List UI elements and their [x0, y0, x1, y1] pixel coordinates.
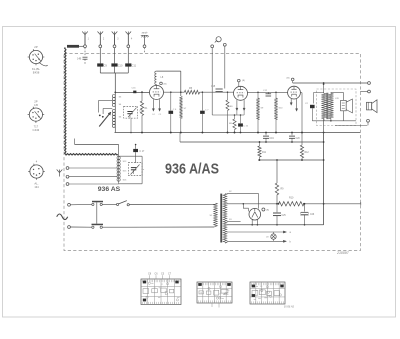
svg-text:C25: C25	[282, 215, 287, 217]
svg-text:S3: S3	[229, 219, 232, 221]
pentode V2	[234, 86, 248, 100]
coupling capacitor C15	[211, 86, 223, 92]
shielded down-lead cable (horizontal)	[65, 154, 118, 155]
HT wire right	[304, 202, 361, 205]
svg-text:S15: S15	[123, 171, 128, 173]
AVC bus	[180, 133, 324, 143]
pick-up terminals	[211, 43, 226, 47]
svg-text:B 936 AS: B 936 AS	[284, 305, 294, 308]
waveband tap upper	[99, 100, 113, 116]
speaker driver unit	[335, 98, 352, 113]
waveband switch arrow	[99, 112, 111, 126]
svg-text:R11: R11	[262, 152, 267, 154]
secondary tap rectifier output	[227, 203, 277, 205]
svg-text:C 6: C 6	[173, 109, 177, 111]
svg-text:(B): (B)	[266, 210, 269, 212]
trimmer capacitor C1 under A1	[77, 48, 88, 64]
anode coil S5	[155, 71, 164, 85]
V3 grid cap wire	[293, 81, 368, 84]
svg-text:C 15: C 15	[243, 125, 248, 127]
svg-text:S3: S3	[119, 97, 122, 99]
V2 legs	[236, 100, 245, 111]
rectifier tube V4	[249, 208, 261, 224]
wire R5 to V2	[200, 91, 234, 93]
svg-text:L8: L8	[161, 76, 164, 79]
speaker terminals	[356, 82, 370, 126]
svg-text:E438: E438	[33, 71, 40, 75]
chassis layout box 3	[250, 282, 294, 308]
936AS shield box	[119, 156, 143, 184]
screen capacitor C19	[263, 132, 274, 142]
svg-text:aarde: aarde	[142, 33, 149, 35]
secondary tap 4v	[227, 219, 241, 221]
svg-text:S13: S13	[123, 161, 128, 163]
V4 top cap	[262, 208, 269, 212]
svg-text:4: 4	[36, 160, 38, 164]
output transformer top wires	[323, 83, 344, 100]
svg-text:(B): (B)	[164, 84, 167, 86]
svg-text:R5: R5	[189, 87, 193, 90]
svg-text:C4: C4	[152, 114, 156, 116]
cathode return wire	[212, 111, 244, 116]
936AS coil loops	[117, 156, 127, 184]
svg-text:3: 3	[117, 38, 119, 41]
bypass capacitor C7	[200, 92, 209, 133]
HT bus	[258, 159, 324, 161]
AC mains symbol	[57, 214, 68, 220]
power transformer core	[220, 194, 222, 243]
svg-text:S7: S7	[184, 108, 187, 110]
primary left wire	[314, 92, 324, 103]
grid coupling capacitor C16	[115, 87, 149, 93]
svg-text:C 7: C 7	[205, 110, 209, 112]
chassis bus	[115, 132, 361, 134]
svg-text:AL.: AL.	[34, 181, 38, 185]
svg-text:C 17: C 17	[139, 151, 145, 153]
svg-text:a: a	[143, 169, 145, 171]
power transformer secondary	[223, 194, 227, 244]
pick-up lead right	[224, 46, 226, 88]
svg-text:2P: 2P	[34, 100, 38, 104]
output tube V3	[288, 86, 301, 99]
shielded down-lead cable (vertical)	[65, 48, 66, 155]
svg-text:L28: L28	[335, 98, 339, 100]
svg-text:C6: C6	[154, 272, 158, 275]
svg-text:C10: C10	[118, 63, 123, 67]
loudspeaker	[367, 100, 378, 113]
svg-text:936 AS: 936 AS	[98, 186, 121, 193]
chassis layout box 2	[197, 282, 232, 308]
trimmer box C2	[124, 106, 143, 118]
aerial terminals	[66, 167, 69, 186]
svg-text:210097: 210097	[336, 251, 350, 255]
secondary tap lamp b	[220, 239, 283, 241]
tube socket diagram AL (bottom left)	[28, 160, 45, 189]
voltage selector	[70, 201, 103, 228]
decoupling resistor R12	[300, 145, 309, 161]
dashed schematic border box	[64, 54, 361, 251]
svg-text:C2: C2	[305, 103, 309, 105]
dashed loudspeaker sub-box	[317, 89, 357, 126]
speaker field wire	[324, 125, 368, 127]
triode V1	[150, 85, 164, 99]
trim capacitor C12	[263, 90, 271, 98]
secondary tap lamp a	[227, 231, 283, 233]
screen capacitor C20	[289, 132, 300, 142]
V3 anode wire	[300, 93, 303, 145]
svg-text:2P: 2P	[34, 45, 38, 49]
svg-text:134: 134	[34, 185, 39, 189]
lamp arrow b	[283, 240, 291, 243]
resistor R5	[184, 87, 199, 94]
trimmer box feed	[130, 118, 132, 133]
dial lamp	[266, 232, 276, 241]
HT down wire	[323, 119, 325, 225]
svg-text:R9: R9	[281, 189, 285, 191]
tone capacitor C21	[305, 103, 315, 121]
svg-text:S9: S9	[261, 108, 264, 110]
V1 cathode legs	[152, 99, 162, 116]
chassis layout box 1	[141, 279, 181, 305]
svg-text:b: b	[290, 240, 292, 243]
svg-text:936 A/AS: 936 A/AS	[165, 162, 219, 178]
svg-text:a: a	[290, 231, 292, 234]
coil S10	[274, 92, 283, 133]
box1 capacitor labels	[148, 272, 172, 279]
coil S9	[256, 92, 264, 133]
power transformer primary S1	[210, 203, 218, 227]
series capacitor C17	[133, 144, 145, 163]
drawing number	[336, 251, 350, 255]
wire V2 anode	[248, 92, 288, 94]
lamp arrow a	[283, 231, 291, 234]
svg-text:C8: C8	[148, 272, 152, 275]
svg-text:C20: C20	[296, 138, 301, 140]
aerial terminal wires	[69, 168, 119, 184]
mains bottom wire	[102, 226, 214, 228]
V2 top cap	[238, 79, 246, 86]
anode wire	[164, 91, 185, 93]
svg-text:S4: S4	[119, 104, 122, 106]
svg-text:C5: C5	[159, 114, 163, 116]
antenna terminals	[84, 34, 146, 48]
choke S7	[180, 97, 187, 134]
HT return bus	[227, 224, 324, 226]
bypass capacitor C6	[169, 92, 177, 133]
svg-text:R12: R12	[305, 152, 310, 154]
V1 top cap	[160, 82, 167, 86]
filter capacitor C25	[273, 203, 286, 225]
svg-text:S6: S6	[119, 117, 122, 119]
secondary tap anode	[227, 191, 259, 208]
title 936 A/AS	[165, 162, 219, 178]
svg-text:(B): (B)	[242, 80, 245, 82]
svg-text:4: 4	[131, 38, 133, 41]
svg-text:C7: C7	[168, 272, 172, 275]
filter capacitor C26	[301, 203, 315, 225]
collector wire	[100, 73, 128, 92]
svg-text:S10: S10	[279, 108, 284, 110]
svg-text:R1: R1	[145, 108, 149, 110]
gramophone pick-up symbol	[215, 37, 221, 43]
aerial input symbol	[57, 170, 63, 177]
output transformer windings	[321, 93, 333, 119]
waveband tap lower	[102, 109, 112, 118]
svg-text:R6: R6	[230, 106, 234, 108]
capacitors C9 C10 C11	[97, 48, 136, 73]
svg-text:C9: C9	[104, 63, 108, 67]
smoothing resistor R10	[278, 197, 305, 207]
bias capacitor C11	[238, 115, 249, 133]
svg-text:C11: C11	[132, 63, 137, 67]
grid leak R6	[226, 92, 233, 133]
ground terminal stub	[144, 48, 146, 54]
tuning coil loops	[112, 92, 122, 133]
svg-text:R10: R10	[289, 197, 294, 200]
svg-text:2: 2	[103, 38, 105, 41]
decoupling resistor R11	[258, 141, 267, 161]
svg-text:14B: 14B	[77, 58, 82, 61]
svg-text:(B): (B)	[287, 78, 290, 80]
V3 top cap	[287, 78, 295, 81]
svg-text:S2: S2	[229, 191, 232, 193]
svg-text:C16: C16	[132, 87, 137, 89]
filament step wire	[243, 203, 249, 211]
svg-text:C15: C15	[211, 86, 216, 88]
label 936 AS	[98, 186, 121, 193]
V3 legs	[290, 99, 298, 112]
mains switch	[102, 201, 214, 206]
wire S5 to HT vertical	[157, 71, 181, 96]
tube socket diagram E438 (top left)	[28, 45, 48, 74]
svg-text:C26: C26	[310, 214, 315, 216]
pick-up lead left	[211, 48, 213, 115]
svg-text:R8: R8	[229, 123, 233, 125]
mains terminals	[68, 203, 71, 228]
output transformer bottom wires	[312, 111, 356, 122]
top feed wire	[75, 139, 119, 157]
trimmer box C18	[128, 163, 145, 176]
aerial plug	[67, 45, 84, 48]
svg-text:C12: C12	[263, 90, 268, 92]
svg-text:C5: C5	[161, 272, 165, 275]
svg-text:S16: S16	[123, 180, 128, 182]
antenna symbols A1-A4	[82, 32, 133, 45]
tube socket diagram C443 (middle left)	[28, 100, 45, 133]
svg-text:1: 1	[88, 38, 90, 41]
svg-text:S1: S1	[210, 215, 213, 217]
grid resistor R1	[140, 91, 148, 133]
bias resistor R8	[229, 115, 236, 133]
ground symbol	[141, 33, 149, 45]
svg-text:L8: L8	[266, 237, 269, 239]
svg-text:C443: C443	[33, 128, 40, 132]
svg-text:C19: C19	[270, 138, 275, 140]
smoothing resistor R9	[275, 160, 284, 204]
